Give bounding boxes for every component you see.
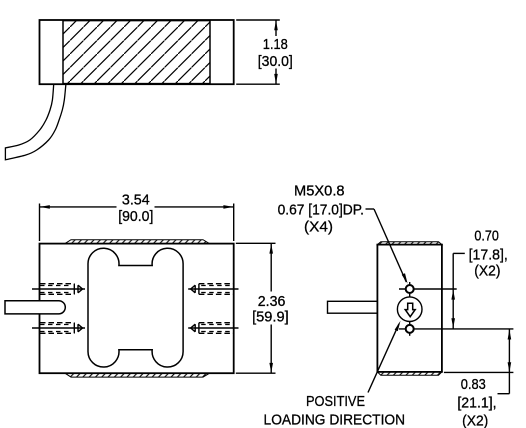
svg-text:M5X0.8: M5X0.8 bbox=[294, 182, 345, 199]
side view top serrated sliver bbox=[377, 242, 442, 245]
svg-text:0.67 [17.0]DP.: 0.67 [17.0]DP. bbox=[278, 201, 364, 218]
side view bottom serrated sliver bbox=[377, 372, 442, 375]
svg-text:[17.8],: [17.8], bbox=[469, 246, 508, 263]
dimension 0.70 [17.8] (X2) dimension line and arrows bbox=[451, 289, 455, 329]
front view center cutout bbox=[88, 248, 183, 367]
svg-text:[59.9]: [59.9] bbox=[252, 308, 289, 325]
front view top serrated sliver bbox=[65, 240, 210, 244]
svg-text:0.70: 0.70 bbox=[474, 227, 499, 244]
dimension text 3.54 [90.0] bbox=[118, 192, 153, 226]
side view lower tapped hole circle bbox=[406, 325, 414, 333]
dimension text 0.70 [17.8] (X2) bbox=[469, 227, 508, 279]
leader for POSITIVE LOADING DIRECTION bbox=[368, 321, 401, 393]
svg-text:(X4): (X4) bbox=[304, 218, 333, 235]
dimension 0.83 [21.1] (X2) extension line bbox=[444, 371, 514, 373]
side view upper tapped hole centerlines bbox=[399, 282, 457, 300]
dimension 1.18 [30.0] extension lines bbox=[236, 20, 280, 84]
dimension 0.83 [21.1] (X2) dimension line and arrows bbox=[498, 329, 512, 394]
side view upper tapped hole circle bbox=[406, 285, 414, 293]
svg-text:[21.1],: [21.1], bbox=[457, 394, 496, 411]
svg-text:LOADING DIRECTION: LOADING DIRECTION bbox=[264, 411, 406, 428]
svg-text:[90.0]: [90.0] bbox=[118, 208, 153, 225]
svg-text:1.18: 1.18 bbox=[263, 36, 288, 53]
svg-text:POSITIVE: POSITIVE bbox=[306, 393, 365, 410]
front view tapped hole upper-left (hidden) bbox=[32, 284, 85, 295]
label text POSITIVE LOADING DIRECTION bbox=[264, 393, 406, 428]
top view hatched loading block bbox=[63, 21, 210, 84]
dimension 1.18 [30.0] dimension line and arrows bbox=[274, 20, 278, 84]
front view cable bbox=[5, 301, 65, 314]
svg-text:0.83: 0.83 bbox=[461, 376, 486, 393]
front view tapped hole lower-right (hidden) bbox=[188, 323, 238, 334]
front view tapped hole lower-left (hidden) bbox=[32, 323, 85, 334]
front view body outline bbox=[40, 244, 234, 374]
side view body outline bbox=[377, 245, 442, 372]
dimension 2.36 [59.9] extension lines bbox=[236, 243, 276, 373]
side view loading direction circle bbox=[397, 297, 422, 322]
dimension 3.54 [90.0] dimension line and arrows bbox=[40, 205, 234, 209]
svg-text:2.36: 2.36 bbox=[258, 293, 286, 310]
side view lower tapped hole centerlines bbox=[399, 322, 513, 336]
side view hollow down arrow bbox=[405, 303, 415, 317]
dimension text 0.83 [21.1] (X2) bbox=[457, 376, 496, 428]
top view body outline bbox=[40, 20, 234, 84]
dimension text 1.18 [30.0] bbox=[258, 36, 293, 70]
dimension 0.70 [17.8] (X2) leader bracket bbox=[453, 253, 465, 289]
leader for M5X0.8 note bbox=[366, 209, 408, 284]
top view cable bbox=[5, 84, 66, 160]
svg-text:[30.0]: [30.0] bbox=[258, 53, 293, 70]
dimension text 2.36 [59.9] bbox=[252, 293, 289, 326]
svg-text:(X2): (X2) bbox=[462, 413, 488, 428]
dimension 3.54 [90.0] extension lines bbox=[40, 204, 234, 242]
svg-text:3.54: 3.54 bbox=[122, 192, 150, 209]
note text M5X0.8 0.67 [17.0]DP. (X4) bbox=[278, 182, 364, 235]
side view cable stub bbox=[328, 301, 378, 313]
dimension 2.36 [59.9] dimension line and arrows bbox=[269, 244, 273, 373]
front view tapped hole upper-right (hidden) bbox=[188, 284, 238, 295]
svg-text:(X2): (X2) bbox=[474, 262, 500, 279]
front view bottom serrated sliver bbox=[65, 373, 210, 377]
